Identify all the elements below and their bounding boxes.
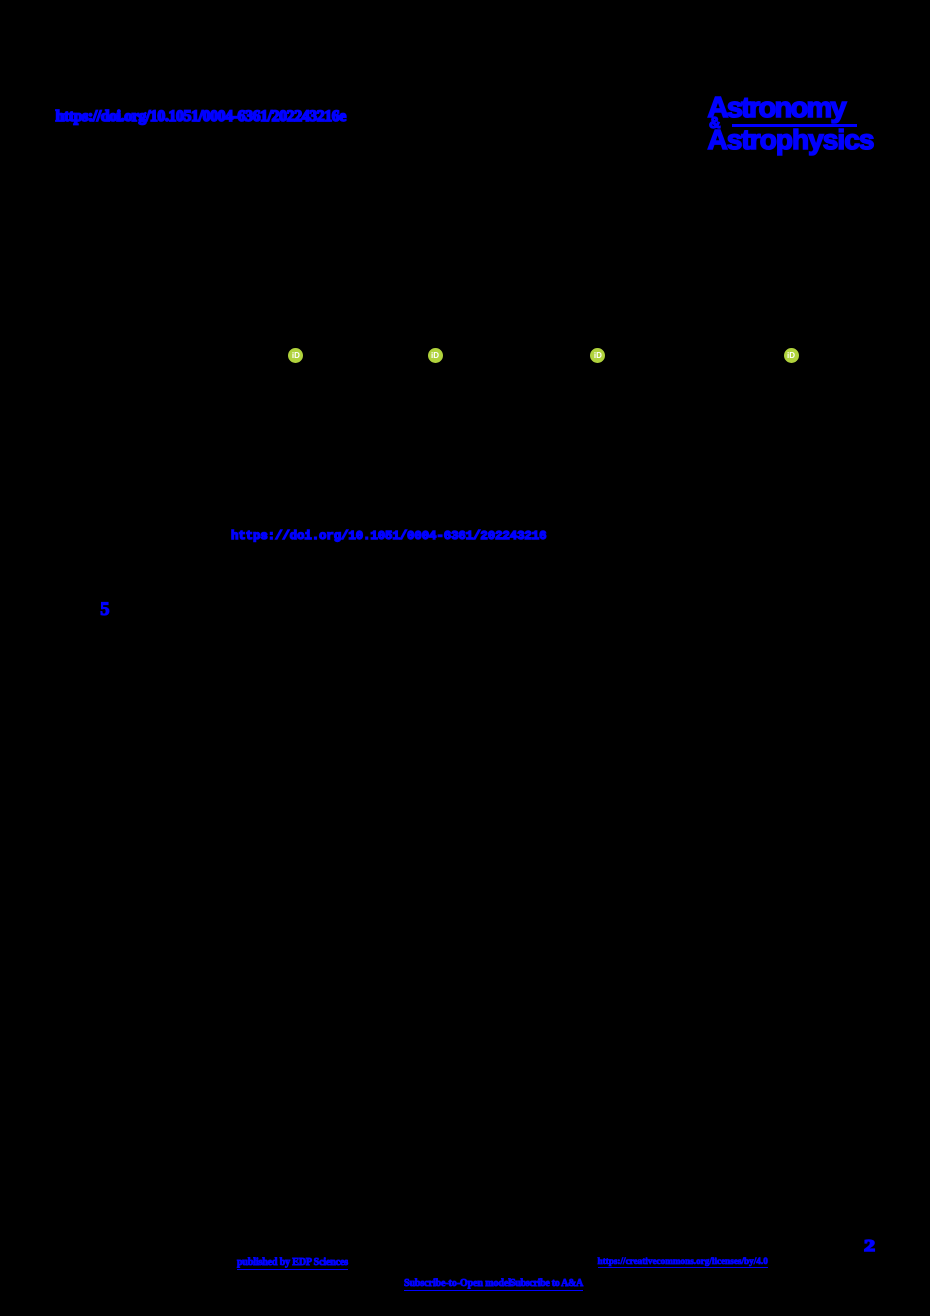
orcid icon 3 [590,348,605,363]
orcid icon 4 [784,348,799,363]
footer link: Subscribe-to-Open model. [404,1278,513,1291]
header DOI link [56,109,346,125]
A&A logo: Astrophysics [708,126,874,154]
original-article DOI link (typewriter) [231,529,546,544]
A&A logo: ampersand [709,116,721,132]
internal link digit 5 [100,601,109,620]
orcid icon 1 [288,348,303,363]
footer link: published by EDP Sciences [237,1257,348,1270]
A&A logo: rule [732,124,857,127]
orcid icon 2 [428,348,443,363]
A&A logo: Astronomy [708,94,845,123]
footer link: creative commons url [598,1256,768,1268]
internal link digit 2 [864,1237,875,1254]
footer link: Subscribe to A&A [510,1278,583,1291]
